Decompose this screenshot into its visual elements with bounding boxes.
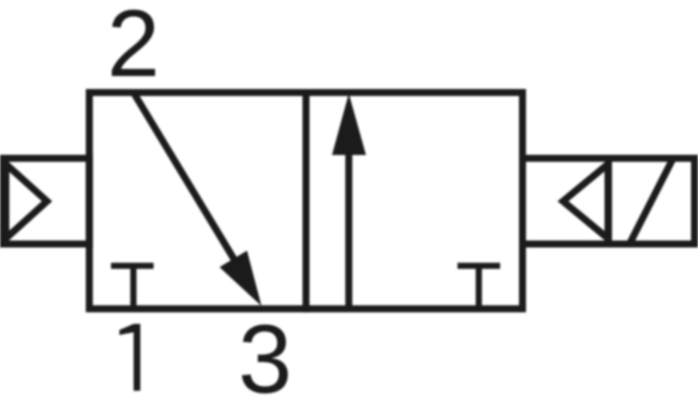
wire: flow arrow 1->2 shaft (right position) [345,152,352,309]
left pilot triangle (points right) [6,164,47,239]
left pilot actuator box [4,158,90,244]
arrowhead 1->2 [332,94,366,156]
svg-text:3: 3 [238,305,292,409]
blocked port 1 symbol (T) [111,266,154,309]
svg-text:2: 2 [107,0,160,97]
port label 3 [238,305,292,409]
right pilot triangle (points left) [563,164,608,239]
valve body outline (2-position box) [89,93,522,309]
blocked port 3 symbol (T) [458,266,501,309]
port label 1 [119,324,140,391]
right pilot actuator box [523,158,695,244]
port label 2 [107,0,160,97]
right pilot divider [605,155,612,247]
valve position divider [303,89,310,312]
arrowhead 2->3 [220,251,262,306]
wire: flow path arrow 2->3 shaft (left position) [134,93,237,263]
spring / pilot diagonal [630,159,674,245]
